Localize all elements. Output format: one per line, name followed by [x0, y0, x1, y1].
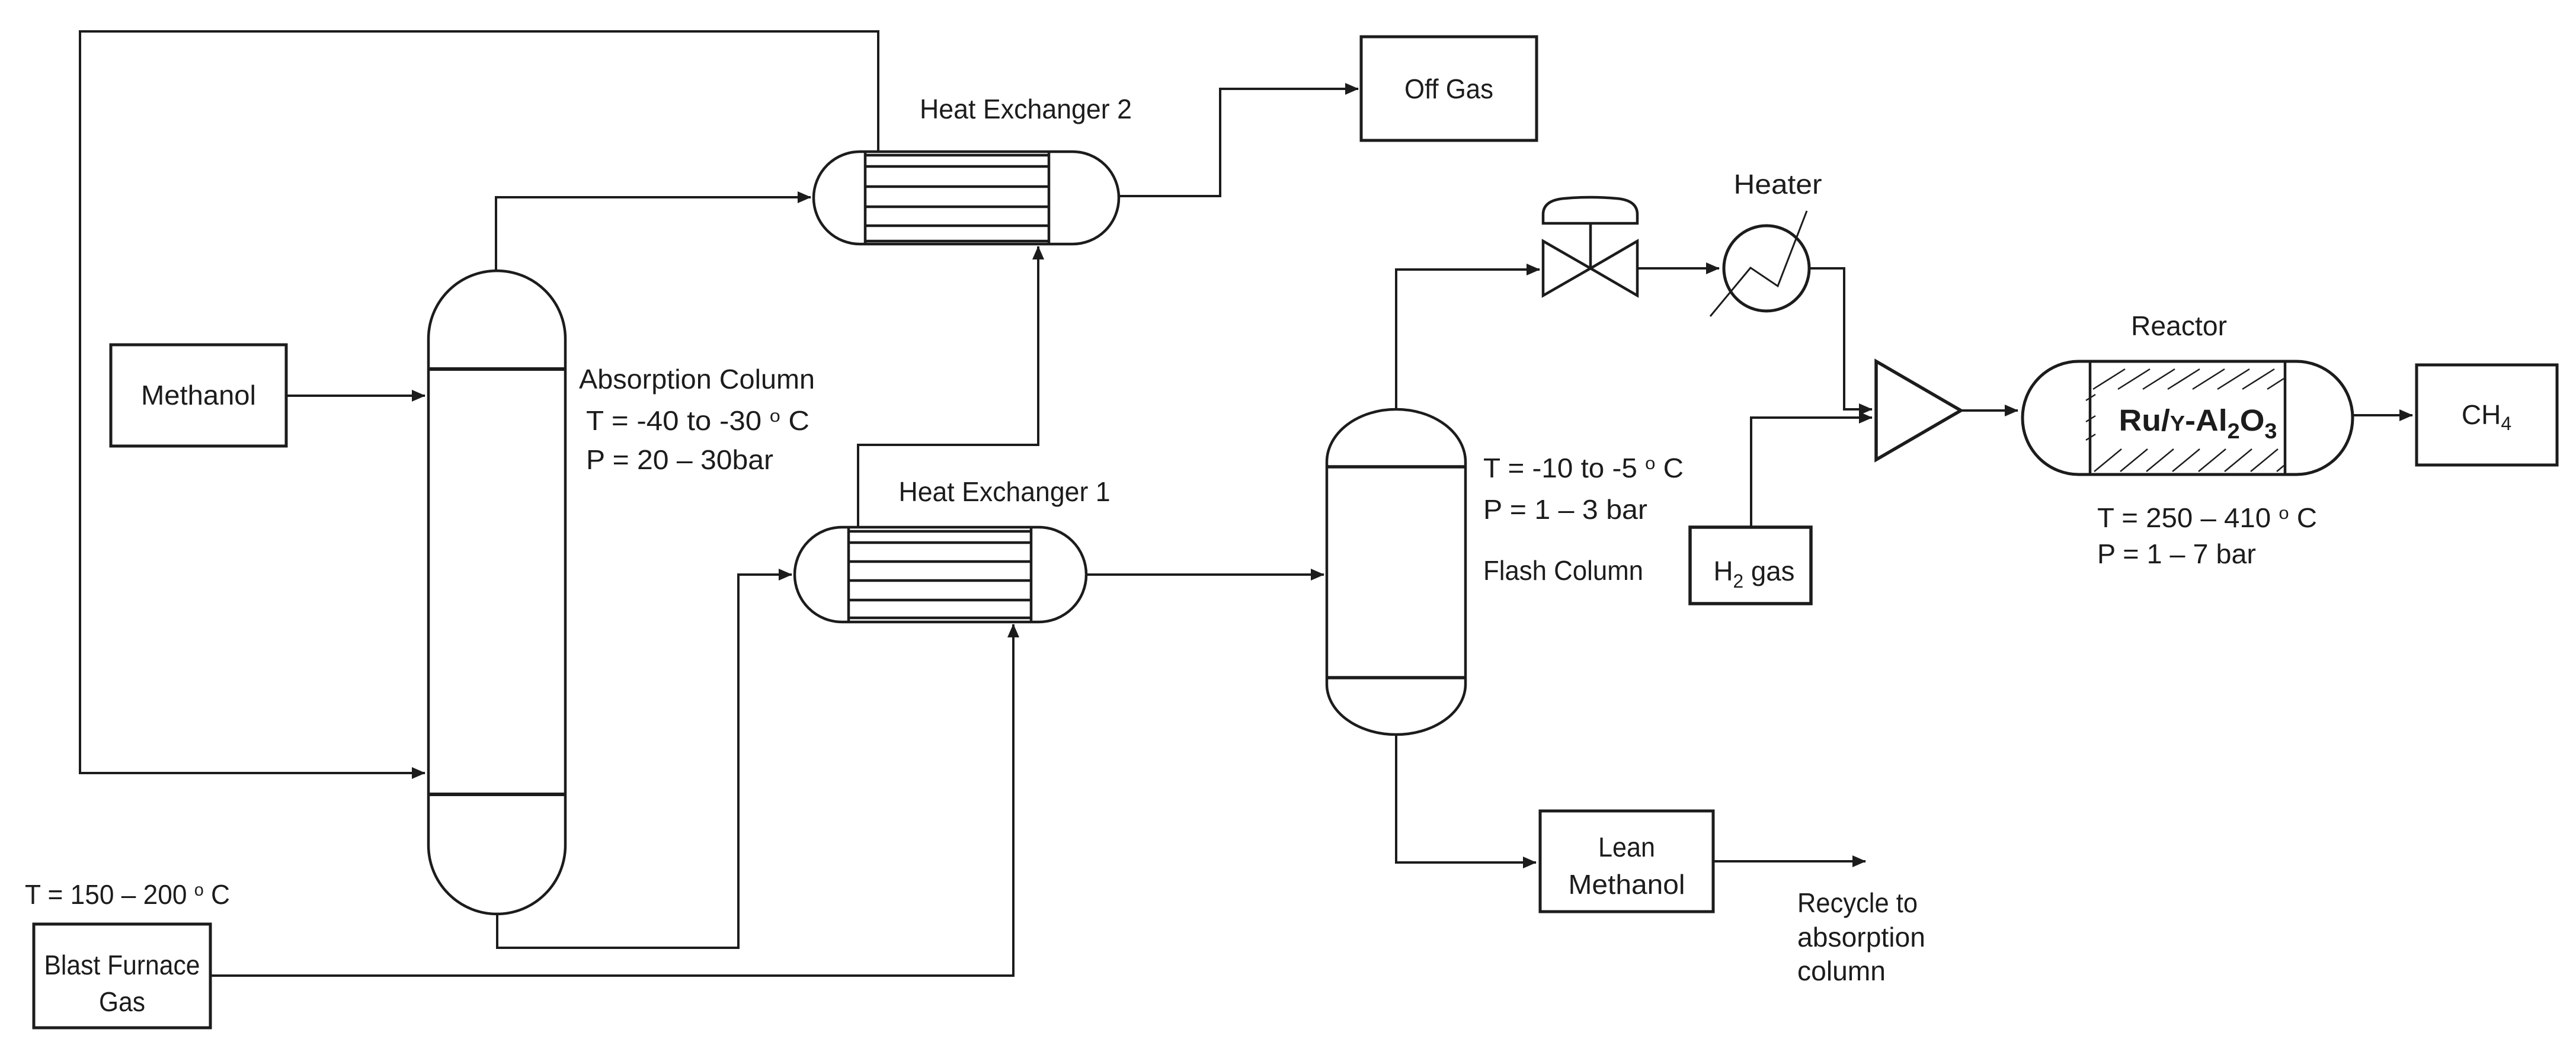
svg-text:Heater: Heater: [1734, 169, 1822, 200]
HE2 right tube sheet: [1048, 152, 1051, 244]
svg-text:H2 gas: H2 gas: [1714, 556, 1795, 592]
flash column lower tray line: [1327, 676, 1465, 679]
svg-text:Flash Column: Flash Column: [1483, 555, 1643, 586]
wire blast furnace gas to HE1 tube inlet: [210, 624, 1013, 976]
svg-text:T = -40 to -30 o C: T = -40 to -30 o C: [586, 405, 809, 436]
box Off Gas: [1361, 37, 1537, 140]
box CH4: [2417, 365, 2557, 465]
wire valve to heater: [1637, 267, 1719, 270]
HE1 right tube sheet: [1030, 527, 1033, 622]
svg-text:Absorption Column: Absorption Column: [579, 364, 815, 395]
svg-text:Lean: Lean: [1598, 832, 1655, 862]
HE1 left tube sheet: [847, 527, 850, 622]
wire HE1 shell outlet to flash column: [1086, 573, 1324, 576]
flash column vessel: [1327, 409, 1465, 735]
svg-text:Off Gas: Off Gas: [1404, 73, 1493, 104]
valve body right triangle: [1591, 241, 1637, 296]
wire H2 gas to compressor lower inlet: [1751, 418, 1872, 527]
box H2 gas: [1690, 527, 1811, 604]
svg-text:Recycle to: Recycle to: [1797, 887, 1918, 918]
svg-text:Gas: Gas: [99, 986, 145, 1017]
wire recycle loop HE2 top to absorption column lower inlet: [80, 31, 878, 773]
svg-text:Methanol: Methanol: [141, 380, 256, 411]
reactor left bed boundary: [2089, 361, 2092, 474]
wire lean methanol recycle stream: [1713, 860, 1865, 862]
wire reactor outlet to CH4: [2353, 414, 2412, 416]
wire HE1 tube outlet to HE2 tube inlet: [858, 246, 1038, 527]
wire flash column overhead to valve: [1396, 270, 1540, 409]
heater zigzag element: [1710, 211, 1807, 316]
compressor triangle: [1876, 361, 1961, 460]
flash column upper tray line: [1327, 465, 1465, 469]
absorption column vessel: [428, 271, 565, 914]
svg-text:P = 1 – 7 bar: P = 1 – 7 bar: [2097, 538, 2256, 569]
svg-text:T = -10 to -5 o C: T = -10 to -5 o C: [1483, 453, 1684, 483]
heat exchanger HE1 shell: [795, 527, 1086, 622]
HE2 tube lines: [865, 155, 1049, 241]
wire compressor to reactor: [1961, 409, 2018, 412]
wire absorption column bottoms to HE1 shell inlet: [497, 575, 792, 948]
reactor catalyst hatch top: [2086, 369, 2284, 440]
HE2 left tube sheet: [864, 152, 867, 244]
svg-text:Reactor: Reactor: [2131, 310, 2227, 341]
absorption column upper tray line: [428, 367, 565, 371]
svg-text:absorption: absorption: [1797, 922, 1925, 953]
box Methanol: [111, 345, 286, 446]
svg-text:T = 250 – 410 o C: T = 250 – 410 o C: [2097, 502, 2317, 533]
heat exchanger HE2 shell: [814, 152, 1119, 244]
svg-text:column: column: [1797, 955, 1886, 986]
HE1 tube lines: [849, 531, 1031, 618]
svg-text:CH4: CH4: [2462, 399, 2511, 434]
wire methanol feed to absorption column: [286, 395, 425, 397]
svg-text:Heat Exchanger 1: Heat Exchanger 1: [899, 476, 1111, 507]
svg-text:P = 1 – 3 bar: P = 1 – 3 bar: [1483, 494, 1647, 525]
reactor catalyst hatch bottom: [2094, 449, 2284, 472]
valve body left triangle: [1543, 241, 1591, 296]
heater circle: [1724, 226, 1809, 311]
wire flash column bottoms to lean methanol: [1396, 735, 1536, 862]
svg-text:Ru/Y-Al2O3: Ru/Y-Al2O3: [2119, 403, 2277, 443]
wire absorption column overhead to HE2 shell inlet: [496, 197, 811, 272]
wire HE2 shell outlet to Off Gas: [1119, 89, 1358, 196]
valve stem: [1589, 223, 1592, 268]
reactor vessel: [2023, 361, 2353, 474]
wire heater to compressor upper inlet: [1809, 268, 1872, 409]
valve actuator cap: [1543, 197, 1637, 223]
svg-text:Methanol: Methanol: [1569, 869, 1685, 900]
box Lean Methanol: [1540, 811, 1713, 912]
svg-text:Blast Furnace: Blast Furnace: [44, 950, 200, 980]
svg-text:T = 150 – 200 o C: T = 150 – 200 o C: [25, 879, 230, 910]
svg-text:P = 20 – 30bar: P = 20 – 30bar: [586, 444, 773, 475]
absorption column lower tray line: [428, 793, 565, 796]
box Blast Furnace Gas: [34, 924, 210, 1028]
svg-text:Heat Exchanger 2: Heat Exchanger 2: [920, 94, 1132, 124]
reactor right bed boundary: [2284, 361, 2287, 474]
